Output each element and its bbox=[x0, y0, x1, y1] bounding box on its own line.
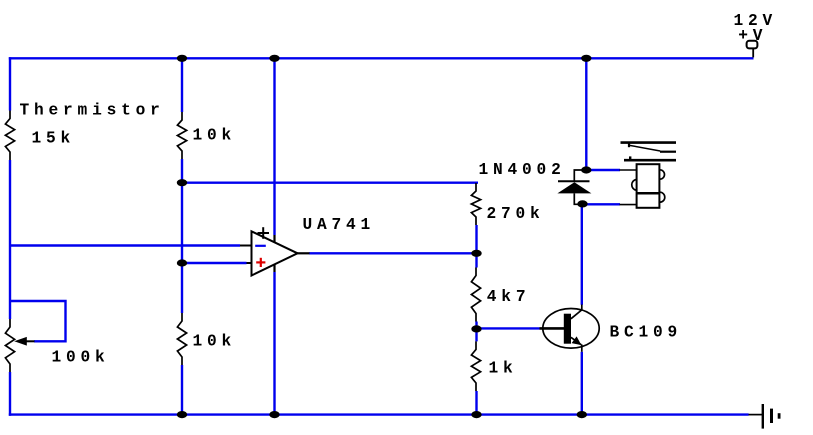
svg-text:10k: 10k bbox=[193, 127, 237, 145]
svg-text:UA741: UA741 bbox=[303, 216, 376, 234]
svg-text:+V: +V bbox=[738, 27, 767, 45]
svg-text:1k: 1k bbox=[489, 359, 518, 377]
svg-text:BC109: BC109 bbox=[610, 324, 683, 342]
svg-text:270k: 270k bbox=[487, 205, 545, 223]
svg-text:Thermistor: Thermistor bbox=[20, 102, 165, 120]
svg-text:100k: 100k bbox=[52, 348, 110, 366]
svg-text:15k: 15k bbox=[32, 129, 76, 147]
svg-text:4k7: 4k7 bbox=[487, 288, 531, 306]
svg-text:10k: 10k bbox=[193, 332, 237, 350]
svg-text:1N4002: 1N4002 bbox=[479, 161, 566, 179]
